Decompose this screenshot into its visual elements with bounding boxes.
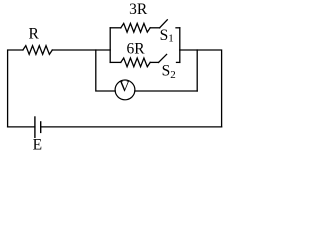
svg-text:R: R: [29, 25, 40, 42]
svg-text:6R: 6R: [126, 41, 145, 58]
svg-text:3R: 3R: [129, 1, 148, 18]
svg-text:E: E: [33, 136, 42, 153]
svg-text:V: V: [119, 79, 131, 96]
